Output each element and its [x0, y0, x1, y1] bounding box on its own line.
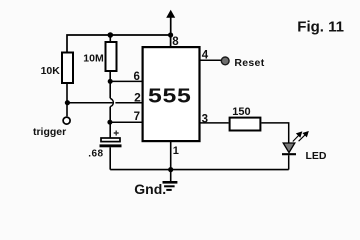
svg-text:150: 150 — [232, 106, 250, 118]
svg-text:Reset: Reset — [234, 57, 264, 69]
svg-text:7: 7 — [134, 111, 140, 123]
svg-text:2: 2 — [134, 90, 141, 104]
svg-text:1: 1 — [173, 145, 179, 157]
svg-text:6: 6 — [133, 71, 139, 83]
svg-text:Fig. 11: Fig. 11 — [297, 19, 344, 36]
svg-text:8: 8 — [172, 36, 179, 48]
svg-text:10K: 10K — [41, 65, 61, 77]
svg-text:LED: LED — [306, 150, 327, 162]
svg-text:Gnd.: Gnd. — [134, 181, 166, 197]
svg-text:4: 4 — [202, 50, 209, 62]
svg-text:10M: 10M — [83, 53, 104, 65]
svg-text:555: 555 — [148, 84, 192, 107]
svg-text:trigger: trigger — [33, 126, 66, 138]
svg-text:3: 3 — [202, 113, 208, 125]
svg-text:.68: .68 — [88, 149, 103, 160]
